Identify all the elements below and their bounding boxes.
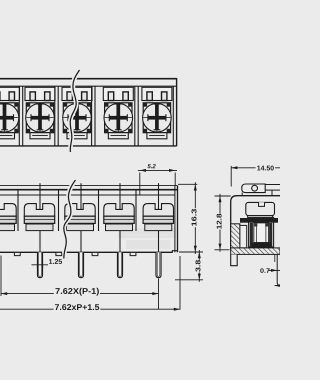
- text 12.8: [216, 214, 223, 230]
- row1 arrows: [1, 292, 7, 295]
- hinge line right: [265, 189, 280, 191]
- bottom hatch band: [231, 248, 280, 255]
- row1 left ext vline: [0, 256, 2, 297]
- pin 2: [78, 252, 83, 277]
- dim 12.8 ext top: [215, 195, 231, 197]
- foot 3: [92, 253, 98, 256]
- dim 16.3/3.8 shared tick: [179, 251, 203, 253]
- dim 14.50 ext: [230, 166, 232, 187]
- foot 1: [14, 253, 20, 256]
- cage outer: [249, 217, 274, 247]
- body bottom line: [0, 251, 172, 253]
- dim 5.2 line: [138, 169, 177, 171]
- top view bottom edge: [0, 145, 177, 147]
- dim 14.50 line: [231, 167, 280, 169]
- text 3.8: [195, 260, 202, 273]
- cage dark bottom: [251, 243, 271, 247]
- screw position 3: [62, 87, 92, 139]
- tab flange right: [265, 184, 280, 186]
- dim texts front: [49, 164, 202, 311]
- screw head side: [246, 202, 275, 215]
- barrier top thin line: [0, 185, 178, 187]
- row2 right ext (body edge down): [179, 256, 181, 310]
- side foot: [231, 254, 238, 265]
- watermark faint: [118, 228, 176, 249]
- dim 16.3 top ext: [178, 183, 197, 185]
- dim 3.8 line: [198, 250, 200, 282]
- tab hinge drop left: [241, 193, 243, 196]
- text 7.62xP+1.5: [54, 304, 101, 311]
- row2 dim line: [0, 308, 180, 310]
- pin centerline 2: [80, 183, 82, 254]
- 16.3 arrows: [194, 184, 197, 190]
- text 5.2: [147, 164, 155, 168]
- screw position 4: [103, 87, 133, 139]
- dim 14.50 arrow: [231, 166, 237, 169]
- screw position 2: [25, 87, 55, 139]
- screw position 5: [142, 87, 172, 139]
- screw front 1: [0, 204, 16, 231]
- side pin: [277, 254, 280, 285]
- dim 0.7 lower arrow: [275, 285, 281, 287]
- foot 4: [130, 253, 136, 256]
- pin 1: [37, 252, 42, 277]
- foot 2: [56, 253, 62, 256]
- dim 12.8 arrows: [219, 196, 222, 202]
- dim 5.2 ext lines: [139, 173, 141, 196]
- dim 1.25 line: [32, 264, 49, 266]
- mounting tab: [242, 184, 265, 193]
- row1 dim line: [1, 293, 159, 295]
- row2 arrow right: [174, 308, 180, 311]
- dim 12.8 ext bottom: [215, 249, 230, 251]
- front divider 1: [17, 190, 19, 231]
- break line top view: [70, 70, 79, 152]
- hinge drop: [271, 190, 273, 196]
- front divider 2: [98, 190, 100, 231]
- front divider 1b: [58, 190, 60, 231]
- break line halo top view: [70, 70, 79, 152]
- break line front view: [64, 180, 76, 259]
- divider 4-5: [135, 86, 138, 146]
- window band top line: [0, 194, 175, 196]
- right edge double line: [172, 86, 174, 146]
- front wall top line: [0, 189, 178, 191]
- divider 3-4: [92, 86, 95, 146]
- bottom right step: [172, 251, 177, 253]
- screw under band: [248, 216, 273, 218]
- 3.8 arrows: [198, 252, 201, 258]
- cage inner walls: [250, 223, 253, 247]
- hatch block left: [231, 224, 240, 248]
- top view cells top line: [0, 85, 177, 87]
- tab hole: [252, 185, 258, 191]
- jaw squares: [254, 223, 257, 226]
- pin centerline 1: [39, 183, 41, 254]
- front divider 3: [135, 190, 137, 231]
- text 16.3: [191, 208, 198, 227]
- pin centerline 4: [158, 183, 160, 254]
- pillar: [240, 225, 247, 248]
- pin 3: [117, 252, 122, 277]
- screw front 5: [143, 204, 173, 231]
- 5.2 arrows: [140, 169, 146, 172]
- text 14.50: [256, 164, 276, 171]
- cage inner verticals: [256, 226, 258, 243]
- screw front 2: [24, 204, 54, 231]
- body outline: [231, 196, 280, 250]
- row1 right ext (pin4 centerline down): [158, 279, 160, 310]
- dim 1.25 ticks: [36, 262, 38, 268]
- screw front 4: [104, 204, 134, 231]
- dim 16.3 line: [194, 182, 196, 254]
- text 1.25: [49, 259, 62, 264]
- cage plate dark top: [240, 218, 278, 223]
- screw slot notch: [259, 202, 265, 206]
- break line halo front view: [64, 180, 76, 259]
- divider 1-2: [19, 86, 22, 146]
- dim 3.8 bottom ext: [175, 279, 203, 281]
- screw position 1: [0, 87, 20, 139]
- dim 0.7: [260, 268, 269, 273]
- pin 4: [156, 252, 161, 277]
- front right edge double: [174, 186, 176, 253]
- dim 12.8 line: [219, 194, 221, 252]
- dim 0.7 arrow line: [269, 269, 280, 271]
- cage inner box: [254, 223, 269, 243]
- text 7.62X(P-1): [54, 287, 100, 295]
- divider 2-3: [55, 86, 58, 146]
- top view outer top edge: [0, 78, 177, 80]
- pin centerline 3: [119, 183, 121, 254]
